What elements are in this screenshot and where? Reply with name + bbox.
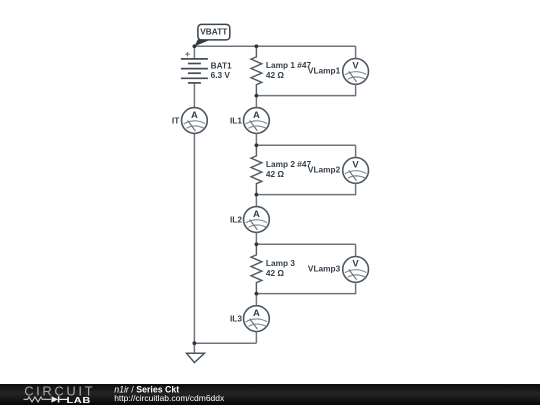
svg-text:6.3 V: 6.3 V	[211, 70, 231, 80]
ammeter IL3	[244, 306, 270, 332]
wire bottom corner to ground	[193, 343, 195, 353]
wire lamp3 top rail	[256, 243, 355, 245]
ammeter IL2	[244, 207, 270, 233]
node ground corner	[193, 341, 197, 345]
svg-text:VLamp1: VLamp1	[308, 65, 341, 75]
wire VLamp1 branch top	[355, 46, 357, 58]
resistor Lamp2	[251, 145, 262, 194]
wire VLamp2 branch bottom	[256, 183, 355, 194]
voltmeter VLamp3	[343, 257, 369, 283]
wire IL1 to lamp2 junction	[255, 133, 257, 145]
ammeter IT	[182, 108, 208, 134]
svg-text:V: V	[352, 61, 359, 72]
svg-text:Lamp 2 #47: Lamp 2 #47	[266, 159, 312, 169]
wire lamp3 junction to ammeter IL3	[255, 294, 257, 306]
svg-text:VLamp3: VLamp3	[308, 263, 341, 273]
svg-text:VLamp2: VLamp2	[308, 164, 341, 174]
svg-text:A: A	[253, 308, 260, 319]
svg-text:IL3: IL3	[230, 314, 242, 324]
voltmeter VLamp1	[343, 59, 369, 85]
net flag VBATT	[194, 24, 229, 46]
node lamp2 bottom	[255, 193, 259, 197]
footer bar	[0, 384, 540, 405]
wire left rail battery node to battery top	[193, 46, 195, 59]
svg-text:IL1: IL1	[230, 115, 242, 125]
svg-text:IL2: IL2	[230, 214, 242, 224]
svg-text:V: V	[352, 259, 359, 270]
svg-text:A: A	[191, 110, 198, 121]
svg-text:42 Ω: 42 Ω	[266, 70, 285, 80]
battery BAT1	[181, 52, 208, 83]
resistor Lamp1	[251, 46, 262, 95]
ground	[187, 353, 205, 362]
svg-text:Lamp 1 #47: Lamp 1 #47	[266, 60, 312, 70]
svg-text:Lamp 3: Lamp 3	[266, 258, 295, 268]
wire VLamp2 branch top	[355, 145, 357, 157]
wire IL3 to bottom rail	[255, 332, 257, 344]
wire lamp2 top rail	[256, 144, 355, 146]
svg-text:A: A	[253, 110, 260, 121]
node lamp1 bottom	[255, 94, 259, 98]
svg-text:BAT1: BAT1	[211, 60, 232, 70]
wire VLamp3 branch top	[355, 244, 357, 256]
svg-text:42 Ω: 42 Ω	[266, 169, 285, 179]
wire lamp2 junction to ammeter IL2	[255, 195, 257, 207]
node lamp3 bottom	[255, 292, 259, 296]
wire IL2 to lamp3 junction	[255, 232, 257, 244]
svg-text:VBATT: VBATT	[200, 27, 227, 37]
wire lamp1 junction to ammeter IL1	[255, 96, 257, 108]
wire top rail from battery node to VLamp1 branch	[194, 45, 355, 47]
logo resistor zigzag	[24, 397, 52, 402]
svg-text:LAB: LAB	[66, 396, 90, 405]
node lamp3 top	[255, 242, 259, 246]
wire VLamp1 branch bottom	[256, 84, 355, 95]
wire bottom rail to IL3 branch	[194, 342, 256, 344]
svg-text:42 Ω: 42 Ω	[266, 268, 285, 278]
wire VLamp3 branch bottom	[256, 282, 355, 293]
resistor Lamp3	[251, 244, 262, 293]
svg-text:http://circuitlab.com/cdm6ddx: http://circuitlab.com/cdm6ddx	[114, 393, 225, 403]
svg-text:V: V	[352, 160, 359, 171]
svg-text:IT: IT	[172, 115, 179, 125]
node battery top VBATT	[193, 44, 197, 48]
node lamp2 top	[255, 143, 259, 147]
wire battery bottom to ammeter IT	[193, 83, 195, 108]
logo diode	[52, 396, 68, 402]
ammeter IL1	[244, 108, 270, 134]
voltmeter VLamp2	[343, 158, 369, 184]
node lamp1 top	[255, 44, 259, 48]
svg-text:A: A	[253, 209, 260, 220]
wire left rail IT to bottom corner	[193, 133, 195, 343]
